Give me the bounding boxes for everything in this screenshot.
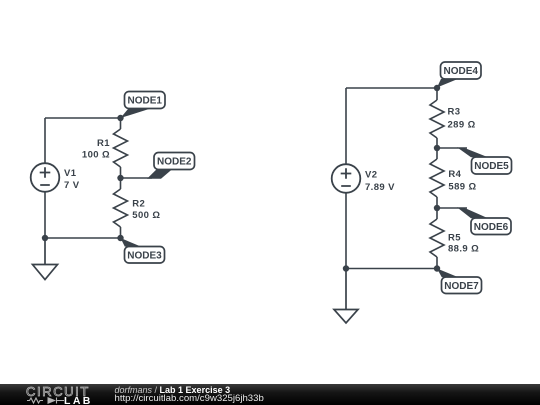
svg-text:R1: R1 — [97, 138, 110, 149]
svg-text:500 Ω: 500 Ω — [132, 210, 160, 221]
svg-text:100 Ω: 100 Ω — [82, 149, 110, 160]
svg-text:R5: R5 — [448, 232, 461, 243]
svg-text:NODE3: NODE3 — [127, 250, 162, 261]
svg-text:NODE7: NODE7 — [444, 281, 479, 292]
svg-text:R2: R2 — [132, 199, 145, 210]
svg-text:NODE2: NODE2 — [157, 157, 192, 168]
svg-text:88.9 Ω: 88.9 Ω — [448, 244, 479, 255]
svg-text:289 Ω: 289 Ω — [448, 120, 476, 131]
svg-text:V2: V2 — [365, 170, 377, 181]
svg-text:V1: V1 — [64, 168, 77, 179]
svg-text:R4: R4 — [448, 169, 461, 180]
svg-text:R3: R3 — [448, 107, 461, 118]
svg-text:NODE4: NODE4 — [443, 66, 478, 77]
svg-text:NODE6: NODE6 — [474, 222, 509, 233]
svg-text:NODE5: NODE5 — [474, 161, 509, 172]
svg-text:7 V: 7 V — [64, 180, 80, 191]
svg-text:7.89 V: 7.89 V — [365, 182, 395, 193]
svg-text:NODE1: NODE1 — [127, 96, 162, 107]
svg-text:589 Ω: 589 Ω — [448, 182, 476, 193]
svg-text:LAB: LAB — [64, 395, 93, 405]
